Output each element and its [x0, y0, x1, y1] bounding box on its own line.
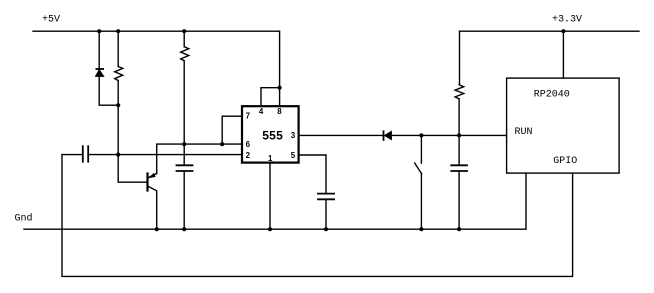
svg-text:555: 555 — [262, 129, 283, 143]
svg-text:1: 1 — [268, 154, 273, 163]
svg-text:+3.3V: +3.3V — [552, 15, 582, 26]
svg-text:2: 2 — [246, 151, 251, 160]
svg-text:3: 3 — [291, 131, 296, 140]
svg-text:5: 5 — [291, 151, 296, 160]
svg-text:Gnd: Gnd — [15, 213, 33, 225]
svg-text:6: 6 — [246, 140, 251, 149]
svg-text:7: 7 — [246, 112, 251, 121]
svg-text:4: 4 — [259, 107, 264, 116]
svg-text:GPIO: GPIO — [553, 156, 577, 167]
svg-text:8: 8 — [277, 107, 282, 116]
svg-text:+5V: +5V — [42, 15, 60, 26]
svg-text:RP2040: RP2040 — [534, 90, 570, 101]
svg-text:RUN: RUN — [515, 127, 533, 138]
